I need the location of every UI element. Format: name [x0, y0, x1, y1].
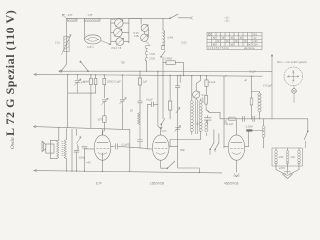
svg-text:+4V: +4V: [86, 161, 91, 165]
tube labels: [96, 182, 239, 186]
wire choke vertical: [162, 18, 164, 45]
capacitor C2 gang mid: [114, 28, 123, 37]
node A faint mark: [225, 16, 230, 22]
svg-text:5000: 5000: [79, 156, 85, 160]
svg-text:1700: 1700: [149, 52, 155, 56]
coil L6 af choke: [130, 109, 143, 149]
wire v74: [67, 75, 69, 128]
capacitor C7: [138, 71, 147, 101]
IF transformer T2 core: [196, 100, 198, 134]
svg-text:240: 240: [279, 155, 284, 159]
capacitor C13: [196, 110, 211, 126]
antenna terminal: [63, 14, 67, 18]
terminal arrow upper bus: [59, 70, 62, 73]
svg-text:2µF: 2µF: [196, 122, 201, 126]
wire plate line: [235, 120, 237, 122]
IF transformer T2 left top: [190, 101, 193, 132]
svg-text:165/5VD8: 165/5VD8: [150, 182, 164, 186]
wire top bus: [67, 17, 171, 19]
switch S2: [61, 64, 67, 72]
switch S1 top right: [169, 14, 192, 19]
svg-text:750: 750: [121, 61, 126, 65]
terminal arrow bottom: [34, 169, 37, 172]
label 240: [279, 155, 295, 159]
tube V2: [148, 135, 178, 168]
coil L7 choke: [252, 92, 262, 120]
wire windings bottom to ground: [276, 163, 299, 175]
capacitor C6: [103, 75, 121, 98]
tube V3: [224, 135, 249, 172]
svg-text:0,4M: 0,4M: [168, 36, 174, 40]
variable tap arrow: [77, 129, 82, 150]
svg-text:0,02: 0,02: [182, 41, 188, 45]
switch S3: [161, 51, 166, 76]
svg-text:500Ω 0,1µF: 500Ω 0,1µF: [107, 80, 121, 84]
wire speaker top: [34, 127, 130, 130]
capacitor C1 gang top: [115, 19, 124, 28]
transformer T4 winding c: [298, 150, 301, 164]
node dots bottom bus: [66, 170, 200, 173]
transformer T1 secondary: [64, 140, 67, 159]
svg-text:1 2 3 4 5 6 7 8 9 10: 1 2 3 4 5 6 7 8 9 10: [208, 47, 229, 50]
capacitor C9: [102, 98, 109, 116]
transformer T4 winding a: [275, 150, 278, 164]
svg-text:1,5T: 1,5T: [88, 13, 94, 17]
resistor R3: [98, 116, 107, 135]
svg-text:1700: 1700: [149, 56, 155, 60]
coil L4 oscillator: [145, 41, 156, 61]
IF transformer T3 left lower: [205, 123, 208, 132]
switch S4 on upper bus: [80, 61, 89, 72]
svg-text:2,7µ: 2,7µ: [55, 41, 61, 45]
svg-text:465/5VG8: 465/5VG8: [224, 182, 239, 186]
resistor R4: [168, 76, 171, 120]
wire tube1 top: [102, 129, 104, 135]
resistor R7: [246, 125, 264, 132]
node dots lower bus: [67, 71, 252, 77]
ground: [283, 169, 293, 179]
wire secondary top: [66, 129, 68, 140]
speaker LS: [42, 141, 54, 153]
svg-text:µ75: µ75: [81, 80, 86, 84]
resistor R6 right: [201, 95, 210, 112]
wire trimmer link: [68, 92, 96, 94]
switch S8: [304, 119, 308, 148]
capacitor C4 osc gang: [141, 24, 148, 31]
svg-text:0,1µF: 0,1µF: [209, 80, 216, 84]
svg-text:0,1µF: 0,1µF: [227, 122, 234, 126]
wire gang left bracket: [111, 20, 116, 45]
capacitor C12: [146, 98, 158, 107]
switch S6: [160, 75, 164, 128]
wire upper bus: [59, 70, 272, 72]
table voltage grid: [207, 33, 262, 50]
wire supply line: [209, 112, 308, 119]
wire osc bracket: [145, 28, 149, 37]
svg-text:90E: 90E: [180, 148, 185, 152]
wire to lamp: [84, 18, 86, 39]
transformer T4 box: [272, 148, 303, 166]
svg-text:0,1µF5: 0,1µF5: [122, 143, 131, 147]
switch S5 tube2: [167, 161, 175, 169]
capacitor C8 trimmer: [74, 75, 86, 93]
wire v180: [179, 75, 181, 83]
svg-text:0,1µF: 0,1µF: [249, 70, 256, 74]
wire bus right drop: [271, 55, 273, 120]
wire tube1 right: [129, 129, 131, 171]
switch S7: [210, 143, 219, 155]
wire antenna drop: [66, 18, 68, 64]
wire switch drop: [214, 130, 219, 143]
resistor R5: [205, 76, 208, 96]
capacitor C15 on v140: [138, 101, 143, 113]
potentiometer P1: [193, 76, 206, 100]
svg-text:50T: 50T: [98, 118, 103, 122]
wire v123 lower: [121, 107, 123, 129]
resistor R2: [83, 75, 97, 128]
lamp E1 oval: [85, 35, 111, 49]
coil L1 on top wire: [68, 13, 78, 21]
IF transformer T2 right: [199, 101, 202, 132]
terminal arrow tube3: [234, 174, 240, 178]
svg-text:4,5T: 4,5T: [68, 13, 74, 17]
wire v72: [71, 129, 73, 171]
tube V1: [85, 131, 148, 166]
transformer T1 frame: [50, 140, 57, 158]
svg-text:1µF: 1µF: [143, 80, 148, 84]
resistor R1 horizontal: [163, 41, 187, 76]
svg-text:P.15: P.15: [134, 31, 140, 35]
wire tube2 left leg: [147, 104, 149, 149]
wire v250: [248, 132, 250, 147]
coil L8 mains: [262, 119, 265, 148]
wire tube1 left leg: [84, 149, 86, 171]
label P15: [134, 31, 140, 38]
wire v158: [158, 71, 161, 128]
svg-text:A·B·1: A·B·1: [87, 45, 94, 49]
svg-text:E7F: E7F: [96, 182, 102, 186]
wire tube3 top: [236, 121, 238, 136]
svg-text:0,25M: 0,25M: [246, 125, 253, 129]
wire v178 with capacitor: [175, 76, 180, 147]
svg-text:P/13 7,8: P/13 7,8: [112, 46, 122, 50]
lamp E2: [292, 86, 297, 103]
wire primary top: [58, 127, 60, 140]
coil L2 on top wire: [85, 13, 101, 21]
capacitor C5 osc gang: [141, 34, 148, 41]
svg-text:0,1µF: 0,1µF: [146, 98, 153, 102]
wire tube2 top: [161, 128, 167, 135]
svg-text:2·0,5µF: 2·0,5µF: [263, 84, 272, 88]
bottom bus wire: [34, 171, 222, 173]
svg-text:240: 240: [291, 155, 296, 159]
capacitor C3 gang bottom: [116, 38, 124, 46]
wire v224: [223, 76, 225, 148]
svg-text:Rö.1 – von außen geseh.: Rö.1 – von außen geseh.: [277, 60, 307, 64]
wire osc coil bottom: [146, 61, 147, 71]
capacitor C10 trimmer2: [120, 75, 127, 107]
capacitor C14: [250, 76, 253, 119]
transformer T1 primary: [57, 140, 60, 158]
transformer T1 core: [62, 142, 64, 156]
wire tube1 bottom: [102, 166, 104, 171]
title text: [3, 10, 17, 149]
capacitor C11: [74, 150, 85, 171]
speaker terminal arrow: [34, 125, 37, 128]
wire lower bus: [34, 74, 262, 76]
wire windings top: [276, 148, 299, 150]
svg-text:5000: 5000: [201, 97, 205, 103]
svg-text:alle Werte: alle Werte: [244, 47, 255, 50]
svg-text:0,4MΩ: 0,4MΩ: [165, 57, 173, 61]
svg-text:Owin L 72 G Spezial (110 V): Owin L 72 G Spezial (110 V): [3, 10, 17, 149]
coil L5 rf choke: [162, 30, 174, 46]
transformer T4 winding b: [286, 150, 289, 164]
svg-text:13B: 13B: [134, 34, 139, 38]
terminal arrow lower bus: [34, 73, 37, 76]
coil L3 antenna variable: [55, 35, 71, 55]
wire gang right bracket: [122, 19, 141, 44]
svg-text:220V: 220V: [279, 166, 285, 170]
wire tube2 right leg: [178, 146, 200, 172]
socket diagram circle: [284, 67, 303, 86]
wire secondary bottom: [66, 158, 68, 170]
wire if links: [170, 76, 206, 147]
